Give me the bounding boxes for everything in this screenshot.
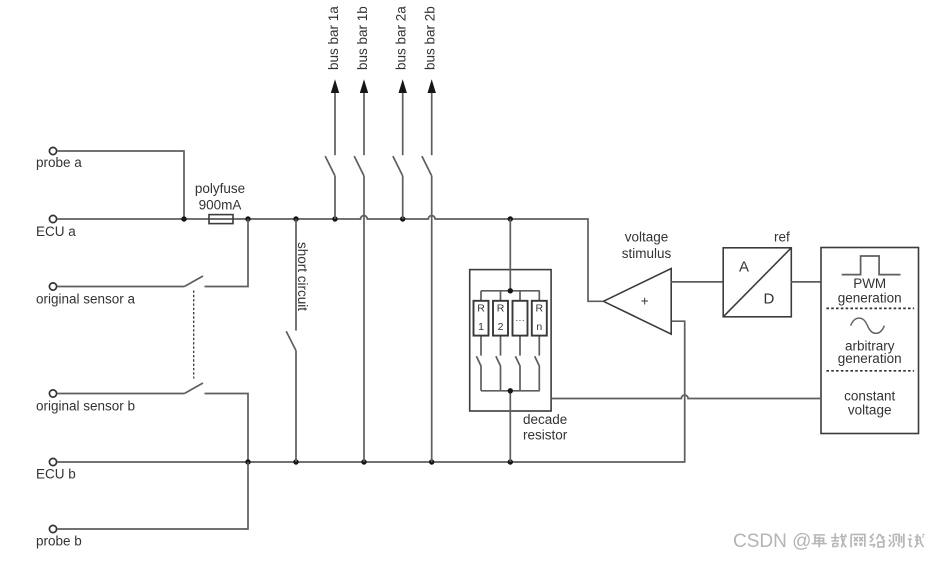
- glyph 试: [908, 534, 924, 547]
- svg-text:bus bar 1b: bus bar 1b: [355, 6, 370, 70]
- junction dot decade resistor / ECU b: [508, 459, 513, 464]
- switch S6 lever (bus bar 2a): [393, 156, 403, 176]
- terminal probe a: [49, 147, 56, 154]
- svg-text:voltage: voltage: [625, 230, 669, 245]
- divider dashed 2: [826, 370, 914, 372]
- decade top rail: [481, 290, 540, 292]
- svg-text:+: +: [641, 294, 649, 309]
- switch R1 lever: [476, 356, 481, 391]
- glyph 网: [851, 534, 865, 547]
- svg-text:1: 1: [478, 321, 484, 333]
- glyph 载: [831, 533, 847, 547]
- wire original sensor b left: [58, 393, 185, 395]
- decade bottom rail: [481, 390, 540, 392]
- junction dot bus bar 2b / ECU b: [429, 459, 434, 464]
- glyph 测: [889, 534, 904, 548]
- svg-text:···: ···: [515, 315, 525, 326]
- wire constant voltage to decade resistor (hop over feedback wire): [551, 395, 821, 398]
- wire bus bar 2b lower (crosses ECU a with hop): [431, 176, 433, 462]
- wire ECU a bus (y=219) with hops at bus bar 1b and 2b: [58, 216, 603, 302]
- junction dot short circuit / ECU a: [293, 216, 298, 221]
- svg-text:R: R: [477, 303, 485, 315]
- switch S7 lever (bus bar 2b): [422, 156, 432, 176]
- svg-text:polyfuse: polyfuse: [195, 181, 245, 196]
- switch R... lever: [515, 356, 520, 391]
- junction dot bus bar 1b / ECU b: [361, 459, 366, 464]
- svg-text:voltage: voltage: [848, 403, 892, 418]
- wire decade resistor center vertical: [509, 219, 511, 462]
- wire op-amp output to A/D: [671, 281, 723, 283]
- resistor dots (ellipsis): [513, 291, 528, 356]
- junction dot sensor b feed / ECU b: [245, 459, 250, 464]
- junction dot decade resistor / ECU a: [508, 216, 513, 221]
- wire original sensor a left: [58, 286, 185, 288]
- resistor R2: [493, 291, 508, 356]
- junction dot sensor feed / ECU a: [245, 216, 250, 221]
- short circuit branch wire top: [295, 219, 297, 331]
- junction dot bus bar 1a / ECU a: [332, 216, 337, 221]
- svg-text:bus bar 2b: bus bar 2b: [423, 6, 438, 70]
- svg-text:original sensor b: original sensor b: [36, 398, 135, 413]
- generator box: [821, 248, 919, 434]
- junction dot bus bar 2a / ECU a: [400, 216, 405, 221]
- op-amp U1 voltage stimulus: [603, 269, 671, 335]
- wire original sensor a to feed: [205, 219, 249, 287]
- junction dot short circuit / ECU b: [293, 459, 298, 464]
- wire bus bar 2a lower: [402, 176, 404, 219]
- resistor Rn: [532, 291, 547, 356]
- terminal original sensor b: [49, 390, 56, 397]
- bus bar 2a arrow: [399, 79, 407, 155]
- svg-text:bus bar 2a: bus bar 2a: [394, 6, 409, 70]
- switch S1 lever (original sensor a): [184, 276, 203, 287]
- bus bar 1a arrow: [331, 79, 339, 155]
- svg-text:generation: generation: [838, 290, 902, 305]
- svg-text:original sensor a: original sensor a: [36, 291, 136, 306]
- decade resistor box: [470, 270, 551, 411]
- svg-text:bus bar 1a: bus bar 1a: [326, 6, 341, 70]
- switch Rn lever: [535, 356, 540, 391]
- svg-text:stimulus: stimulus: [622, 246, 672, 261]
- terminal ECU a: [49, 215, 56, 222]
- glyph 络: [869, 534, 885, 548]
- wire bus bar 1a lower: [334, 176, 336, 219]
- resistor R1: [474, 291, 489, 356]
- svg-text:generation: generation: [838, 351, 902, 366]
- svg-text:D: D: [764, 291, 775, 308]
- junction dot decade bottom rail: [508, 388, 513, 393]
- svg-text:ref: ref: [774, 230, 790, 245]
- wire ECU b bus (y=462): [58, 321, 685, 462]
- switch S3 lever (short circuit): [286, 331, 296, 350]
- mechanical link (dashed) between S1 and S2: [193, 291, 195, 379]
- switch S4 lever (bus bar 1a): [325, 156, 335, 176]
- svg-text:short circuit: short circuit: [295, 242, 310, 311]
- wire probe a to ECU a bus: [58, 151, 185, 219]
- svg-text:ECU a: ECU a: [36, 224, 76, 239]
- switch S2 lever (original sensor b): [184, 383, 203, 394]
- svg-text:ECU b: ECU b: [36, 467, 76, 482]
- svg-text:PWM: PWM: [853, 276, 886, 291]
- svg-text:resistor: resistor: [523, 428, 568, 443]
- svg-text:constant: constant: [844, 388, 895, 403]
- junction dot probe a / ECU a: [181, 216, 186, 221]
- terminal probe b: [49, 525, 56, 532]
- divider dashed 1: [826, 307, 914, 309]
- svg-text:probe a: probe a: [36, 155, 82, 170]
- A/D converter U2: [723, 248, 791, 317]
- svg-text:R: R: [536, 303, 544, 315]
- svg-text:n: n: [536, 321, 542, 333]
- svg-text:R: R: [497, 303, 505, 315]
- PWM waveform icon: [842, 256, 901, 275]
- glyph 车: [812, 535, 827, 547]
- switch R2 lever: [496, 356, 501, 391]
- junction dot decade top rail: [508, 288, 513, 293]
- svg-text:probe b: probe b: [36, 534, 82, 549]
- svg-text:A: A: [739, 259, 749, 276]
- switch S5 lever (bus bar 1b): [354, 156, 364, 176]
- svg-text:decade: decade: [523, 412, 567, 427]
- sine waveform icon: [851, 318, 885, 333]
- svg-text:2: 2: [498, 321, 504, 333]
- bus bar 1b arrow: [360, 79, 368, 155]
- wire probe b to ECU b bus: [58, 462, 249, 529]
- terminal ECU b: [49, 458, 56, 465]
- terminal original sensor a: [49, 283, 56, 290]
- short circuit branch wire bottom: [295, 351, 297, 462]
- svg-text:900mA: 900mA: [199, 198, 242, 213]
- wire original sensor b to ECU b bus: [205, 394, 249, 463]
- bus bar 2b arrow: [428, 79, 436, 155]
- watermark CSDN @车载网络测试: [733, 531, 924, 552]
- svg-text:CSDN @: CSDN @: [733, 531, 811, 552]
- wire bus bar 1b lower (crosses ECU a with hop): [363, 176, 365, 462]
- polyfuse F1: [209, 215, 233, 224]
- wire A/D to generator box: [791, 281, 821, 283]
